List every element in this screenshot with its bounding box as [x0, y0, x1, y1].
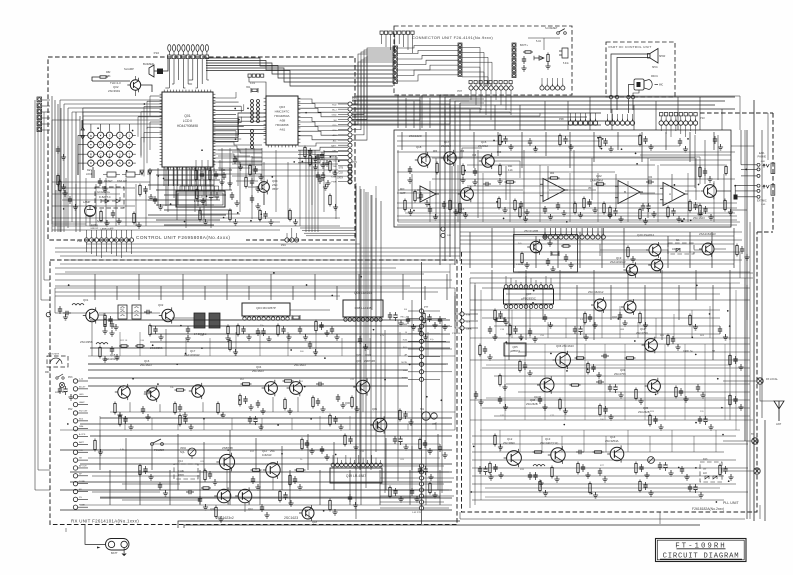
ground [428, 474, 433, 480]
junction [170, 203, 172, 205]
wire [94, 274, 96, 300]
wire [75, 112, 77, 232]
connector J04 column [512, 43, 516, 78]
wire [52, 193, 120, 195]
switch SW81 [92, 167, 94, 178]
resistor [459, 202, 461, 215]
wire [731, 209, 747, 211]
wire [213, 132, 266, 142]
ground [608, 414, 613, 420]
junction [636, 163, 638, 165]
wire [253, 148, 255, 181]
wire [495, 90, 497, 100]
wire [360, 189, 362, 505]
wire [352, 104, 715, 106]
transistor Q11 2SC2759 [642, 337, 658, 353]
wire [444, 109, 446, 130]
wire [88, 369, 408, 371]
wire [545, 132, 547, 156]
ground [442, 452, 447, 458]
wire [85, 525, 106, 545]
svg-text:Q06: Q06 [345, 401, 350, 405]
wire [218, 167, 250, 169]
junction [271, 176, 273, 178]
svg-text:P02: P02 [68, 408, 73, 411]
connector J02 column [393, 46, 397, 83]
capacitor [316, 154, 320, 162]
wire [435, 422, 437, 430]
svg-text:P08: P08 [559, 117, 564, 121]
wire [602, 228, 604, 235]
wire [209, 186, 211, 191]
wire [494, 105, 496, 130]
wire [141, 137, 162, 139]
resistor [639, 134, 641, 147]
wire [510, 90, 512, 115]
junction [144, 103, 146, 105]
ground [408, 209, 413, 215]
ground [324, 330, 329, 336]
wire [229, 470, 231, 505]
svg-text:0.5MHz: 0.5MHz [516, 264, 524, 266]
wire [306, 235, 355, 237]
connector P07 row [469, 84, 513, 90]
capacitor [388, 312, 392, 320]
wire [729, 283, 731, 420]
resistor [249, 164, 251, 177]
junction [696, 285, 698, 287]
capacitor [639, 464, 643, 472]
wire [131, 242, 133, 254]
wire [589, 97, 591, 130]
wire [55, 291, 438, 293]
wire [583, 430, 585, 452]
wire [213, 150, 262, 153]
wire [551, 78, 553, 86]
resistor [237, 324, 239, 337]
transistor Q12 2SA1162GR [263, 461, 280, 479]
wire [311, 156, 313, 205]
capacitor [308, 148, 312, 156]
svg-text:B: B [624, 190, 626, 194]
wire [444, 97, 446, 261]
wire [690, 125, 692, 131]
capacitor [538, 396, 542, 404]
svg-text:BATT: BATT [79, 441, 85, 444]
ground [744, 254, 749, 260]
wire [567, 101, 569, 130]
LCD display LS109-A [176, 191, 225, 207]
junction [237, 212, 239, 214]
ground [676, 216, 681, 222]
wire [446, 274, 448, 300]
wire [272, 397, 274, 412]
meter M01 [50, 358, 62, 364]
svg-text:AMP: AMP [400, 192, 406, 195]
varicap D71 box [700, 462, 722, 482]
wire [411, 174, 413, 209]
capacitor electrolytic [693, 484, 697, 493]
ground [408, 419, 413, 425]
wire [55, 279, 452, 281]
wire [332, 455, 334, 463]
wire [352, 113, 420, 120]
wire [421, 262, 423, 524]
wire [716, 190, 731, 192]
wire [201, 160, 203, 172]
wire [205, 168, 207, 206]
junction [221, 414, 223, 416]
resistor [309, 154, 311, 167]
junction [335, 454, 337, 456]
resistor [719, 464, 721, 477]
transistor Q04 2SC1623 [591, 297, 606, 313]
resistor [289, 474, 291, 487]
junction [180, 325, 182, 327]
resistor R65 [549, 177, 560, 179]
resistor [724, 199, 726, 212]
wire [709, 306, 711, 338]
connector unit boundary [394, 26, 572, 95]
wire [504, 344, 506, 420]
wire [543, 38, 545, 50]
coil L05 [96, 343, 108, 345]
svg-text:2SC2759: 2SC2759 [614, 372, 626, 376]
wire [449, 99, 451, 257]
IC Q05 uPB571 [504, 343, 526, 356]
wire [472, 491, 748, 493]
svg-text:KEY: KEY [87, 169, 92, 172]
svg-text:SPKR: SPKR [659, 56, 666, 58]
junction [734, 185, 736, 187]
ground [502, 207, 507, 213]
wire [182, 274, 184, 300]
wire [128, 138, 130, 141]
junction [745, 169, 747, 171]
wire [229, 148, 231, 181]
ground [683, 146, 688, 152]
wire [435, 158, 437, 218]
jack J01 ext dc [559, 48, 568, 58]
wire [424, 501, 444, 503]
switch S901 [557, 29, 567, 35]
wire [42, 129, 50, 131]
capacitor [393, 436, 397, 444]
wire [470, 309, 720, 311]
junction [293, 161, 295, 163]
wire [352, 116, 587, 118]
capacitor [588, 314, 592, 322]
wire [298, 143, 348, 146]
capacitor C51 [408, 166, 412, 174]
op-amp U-Q03 HMCS47C [264, 96, 301, 147]
wire [160, 286, 162, 300]
svg-text:2SC3254A: 2SC3254A [605, 439, 619, 443]
wire [213, 121, 266, 129]
capacitor [319, 322, 323, 330]
wire [472, 443, 748, 445]
wire [207, 79, 209, 81]
wire [627, 181, 629, 222]
wire [470, 90, 472, 100]
wire [694, 135, 696, 188]
wire [542, 285, 544, 320]
wire [684, 344, 686, 420]
wire [462, 67, 480, 86]
svg-text:DN/LAM: DN/LAM [117, 179, 127, 183]
ground [313, 349, 318, 355]
svg-text:▼: ▼ [99, 133, 102, 137]
wire [135, 91, 137, 97]
wire [65, 271, 450, 273]
wire [687, 173, 689, 222]
wire [154, 70, 157, 72]
wire [78, 436, 88, 438]
wire [746, 130, 748, 519]
wire [472, 499, 724, 501]
wire [44, 279, 50, 281]
wire [249, 77, 266, 96]
svg-text:2SC 1623x2: 2SC 1623x2 [588, 290, 604, 294]
test point TP02 [752, 438, 758, 444]
wire [177, 434, 179, 490]
wire [375, 198, 377, 452]
wire [51, 120, 53, 224]
wire [163, 167, 165, 186]
svg-text:2SC1623: 2SC1623 [294, 363, 306, 367]
wire [92, 77, 98, 81]
svg-text:MUTE: MUTE [401, 362, 407, 364]
wire [398, 34, 400, 44]
ground [313, 164, 318, 170]
svg-text:2SB763B: 2SB763B [364, 359, 375, 363]
ground [423, 334, 428, 340]
svg-text:P10: P10 [154, 51, 160, 55]
wire [713, 132, 715, 150]
ground [728, 209, 733, 215]
svg-text:RX UNIT F2614101A(No.1xxx): RX UNIT F2614101A(No.1xxx) [71, 519, 139, 524]
svg-text:S: S [119, 161, 121, 165]
wire [123, 548, 125, 553]
wire [424, 507, 449, 509]
ground [227, 180, 232, 186]
capacitor [693, 202, 697, 210]
resistor [329, 194, 331, 207]
wire [63, 104, 65, 232]
capacitor C52 [473, 168, 477, 176]
ground [700, 392, 705, 398]
wire [168, 59, 170, 88]
wire [221, 148, 223, 176]
junction [563, 424, 565, 426]
wire [462, 48, 480, 86]
ground [668, 470, 673, 476]
capacitor [253, 166, 257, 174]
resistor [139, 464, 141, 477]
ground [313, 156, 318, 162]
wire [59, 100, 61, 232]
svg-text:ANT: ANT [776, 422, 782, 426]
junction [591, 493, 593, 495]
wire [291, 228, 293, 238]
resistor [429, 482, 431, 495]
wire [734, 186, 736, 197]
wire [610, 285, 612, 320]
ground [148, 474, 153, 480]
wire [352, 112, 601, 114]
wire [40, 108, 42, 300]
wire [352, 62, 393, 104]
wire [627, 430, 629, 452]
key arrow up [81, 127, 84, 130]
capacitor [653, 416, 657, 424]
wire [191, 167, 193, 186]
wire [407, 34, 409, 50]
wire [43, 112, 45, 280]
wire [244, 503, 246, 512]
capacitor C74 [601, 354, 609, 358]
capacitor [513, 326, 517, 334]
ground [248, 404, 253, 410]
svg-text:Q14: Q14 [178, 460, 183, 463]
wire [397, 65, 458, 70]
capacitor [330, 326, 334, 334]
transistor Q23 2SC1623 [701, 183, 717, 199]
capacitor [293, 476, 297, 484]
resistor R74 [575, 357, 586, 359]
wire [34, 100, 36, 490]
resistor [99, 346, 101, 359]
wire [704, 140, 706, 184]
wire [168, 167, 170, 186]
wire [55, 273, 424, 275]
capacitor [543, 314, 547, 322]
wire [203, 442, 205, 470]
wire [530, 278, 532, 285]
wire [617, 58, 650, 97]
coil L01 [72, 304, 84, 306]
resistor R35 [201, 487, 211, 489]
resistor R08 [227, 325, 229, 336]
junction [301, 161, 303, 163]
wire [77, 154, 79, 175]
antenna input pad [46, 312, 50, 316]
wire [209, 338, 211, 356]
ground [463, 212, 468, 218]
junction [635, 153, 637, 155]
wire [759, 505, 761, 519]
ground [568, 144, 573, 150]
wire [213, 97, 236, 99]
wire [491, 270, 493, 300]
connector P77 column [419, 309, 423, 382]
wire [460, 102, 484, 104]
wire [188, 83, 192, 85]
wire [601, 228, 603, 268]
wire [760, 384, 774, 401]
vibrator H01 [422, 412, 437, 420]
capacitor [141, 406, 145, 414]
wire [177, 167, 179, 186]
svg-text:RX LOCAL: RX LOCAL [766, 378, 778, 381]
wire [349, 416, 351, 430]
wire [746, 285, 748, 320]
wire [100, 124, 102, 131]
wire [459, 512, 461, 519]
capacitor [613, 208, 617, 216]
wire [52, 223, 86, 225]
wire [165, 329, 167, 356]
wire [100, 156, 102, 158]
wire [464, 320, 478, 322]
svg-text:LAMP: LAMP [83, 200, 91, 204]
wire [691, 310, 693, 338]
svg-text:RXB: RXB [403, 370, 408, 372]
wire [109, 124, 111, 131]
wire [213, 109, 244, 111]
svg-text:TP: TP [712, 350, 715, 353]
wire [405, 212, 735, 214]
capacitor [698, 416, 702, 424]
capacitor [680, 466, 684, 474]
ground [266, 336, 271, 342]
ground [325, 180, 330, 186]
ground [158, 334, 163, 340]
wire [82, 120, 84, 170]
wire [735, 190, 757, 192]
resistor [94, 439, 96, 452]
ground [303, 334, 308, 340]
wire [565, 318, 567, 338]
wire [494, 375, 750, 377]
wire [156, 219, 220, 221]
capacitor [393, 488, 397, 496]
wire [304, 232, 355, 234]
wire [98, 313, 104, 315]
connector P01 [37, 97, 42, 132]
wire [470, 337, 750, 339]
ground [73, 204, 78, 210]
wire [616, 99, 618, 110]
wire [186, 167, 188, 186]
wire [539, 165, 541, 222]
capacitor [591, 364, 595, 372]
wire [402, 274, 404, 300]
wire [92, 491, 160, 493]
resistor [587, 362, 589, 375]
wire [470, 419, 753, 421]
wire [60, 255, 460, 257]
capacitor [305, 440, 309, 448]
svg-text:CONNECTOR UNIT F26-4191(No.9: CONNECTOR UNIT F26-4191(No.9xxx) [412, 35, 493, 40]
wire [55, 251, 740, 253]
wire [195, 167, 197, 186]
capacitor [418, 326, 422, 334]
wire [189, 79, 193, 81]
transistor Q11 2SB788 [216, 453, 234, 471]
svg-text:2SC2407(Y11): 2SC2407(Y11) [540, 441, 558, 445]
svg-text:AF OUT: AF OUT [79, 464, 87, 467]
ground [128, 424, 133, 430]
ground [286, 334, 291, 340]
svg-text:Q20 2SA812: Q20 2SA812 [637, 233, 655, 237]
jack J08 earphone [757, 163, 775, 177]
wire [213, 123, 266, 133]
wire [469, 109, 471, 130]
wire [172, 317, 194, 319]
part-of-control-unit dashed link [700, 113, 773, 232]
capacitor [528, 328, 532, 336]
